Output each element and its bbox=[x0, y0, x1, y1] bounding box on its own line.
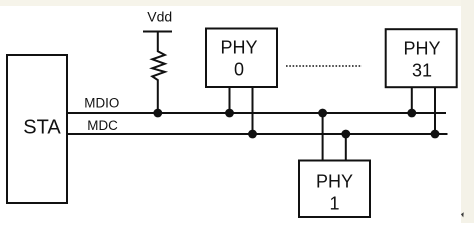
svg-text:PHY: PHY bbox=[220, 38, 257, 58]
wire PHY31 MDC stub bbox=[434, 87, 436, 134]
junction PHY1/MDIO bbox=[318, 109, 327, 118]
svg-text:0: 0 bbox=[234, 60, 244, 80]
wire PHY31 MDIO stub bbox=[411, 87, 413, 113]
svg-text:1: 1 bbox=[329, 194, 339, 214]
svg-text:PHY: PHY bbox=[316, 172, 353, 192]
svg-text:STA: STA bbox=[23, 117, 61, 139]
svg-text:31: 31 bbox=[412, 61, 432, 81]
wire PHY0 MDIO stub bbox=[229, 87, 231, 113]
svg-text:MDIO: MDIO bbox=[84, 96, 119, 111]
wire PHY0 MDC stub bbox=[252, 87, 254, 134]
block PHY 31 bbox=[386, 29, 457, 87]
svg-text:PHY: PHY bbox=[403, 39, 440, 59]
junction resistor/MDIO bbox=[153, 109, 162, 118]
junction PHY1/MDC bbox=[341, 130, 350, 139]
wire MDIO bus bbox=[67, 112, 446, 114]
wire PHY1 MDIO stub bbox=[322, 113, 324, 161]
block PHY 1 bbox=[299, 161, 370, 218]
resistor pull-up R bbox=[152, 32, 165, 114]
wire PHY1 MDC stub bbox=[345, 134, 347, 161]
power Vdd bbox=[143, 9, 172, 32]
wire MDC bus bbox=[67, 133, 448, 135]
dotted ellipsis between PHY 0 and PHY 31 bbox=[286, 65, 362, 67]
junction PHY31/MDIO bbox=[407, 109, 416, 118]
junction PHY0/MDIO bbox=[225, 109, 234, 118]
block PHY 0 bbox=[206, 29, 277, 88]
junction PHY0/MDC bbox=[248, 130, 257, 139]
svg-text:Vdd: Vdd bbox=[147, 9, 172, 25]
block STA bbox=[7, 55, 67, 203]
svg-text:MDC: MDC bbox=[87, 118, 118, 133]
junction PHY31/MDC bbox=[431, 130, 440, 139]
